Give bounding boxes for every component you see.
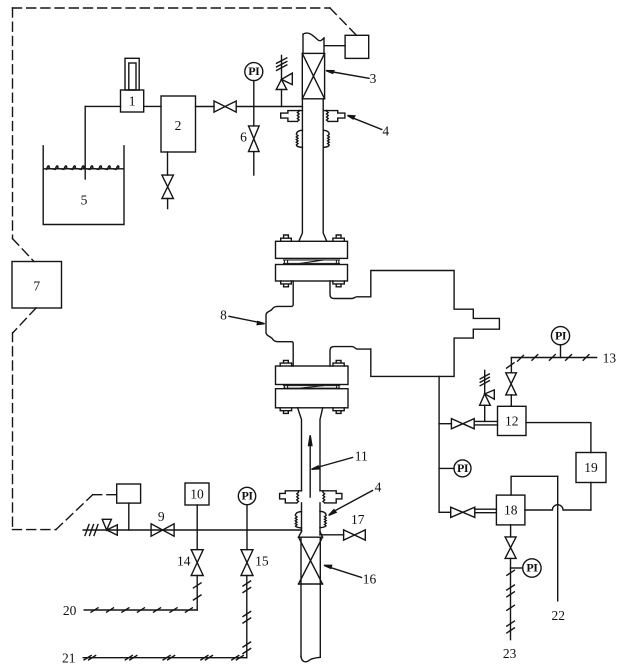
PI gauge on line 13 stem [560, 345, 562, 358]
dashed enclosure border left [12, 8, 14, 239]
atmospheric vent valve left [102, 519, 117, 535]
riser line to 21 [243, 576, 251, 658]
svg-text:8: 8 [220, 307, 227, 322]
valve 6 [249, 126, 260, 152]
box 7 [12, 262, 62, 309]
valve 15 stem [246, 530, 248, 550]
fitting 4 lower-right [320, 491, 342, 503]
svg-text:10: 10 [190, 487, 204, 502]
valve before box 12 [451, 419, 474, 429]
svg-text:13: 13 [603, 350, 617, 365]
leader for 3 [326, 71, 369, 79]
valve 6 stem [253, 107, 255, 126]
svg-text:16: 16 [363, 572, 377, 587]
PI gauge top-left [245, 63, 263, 81]
dashed link border to box 7 [13, 239, 35, 262]
stem small control box [128, 503, 130, 530]
box 10 stem [196, 505, 198, 530]
line to valve 17 [320, 534, 344, 536]
dashed link box 7 to border [13, 308, 36, 333]
wire valve 3 to actuator [325, 45, 346, 47]
PI gauge bottom-left [238, 487, 255, 504]
leader for 4 upper [348, 116, 382, 130]
valve above box 12 [506, 373, 517, 395]
svg-text:12: 12 [505, 413, 519, 428]
relief valve near box 12 stem [484, 405, 486, 421]
small control box [117, 484, 141, 503]
vent hatches left end [85, 525, 98, 536]
bottom flange gasket [284, 386, 340, 389]
wire box2 to valve [196, 106, 215, 108]
PI gauge top-left stem [253, 81, 255, 107]
column stub above valve 3 [303, 33, 324, 53]
top flange gasket [284, 260, 340, 263]
svg-text:9: 9 [158, 509, 165, 524]
dashed border bottom stub [13, 529, 56, 531]
svg-text:21: 21 [62, 651, 76, 666]
valve 15 [241, 550, 253, 576]
line below valve 6 [253, 152, 255, 175]
svg-text:15: 15 [255, 554, 269, 569]
PI gauge mid stem [439, 467, 454, 469]
wire box 12 to box 19 [526, 423, 591, 453]
svg-text:17: 17 [351, 512, 365, 527]
line 21 [83, 656, 247, 660]
box 19 [576, 453, 606, 483]
svg-text:1: 1 [129, 94, 136, 109]
bottom flange lower bolts [280, 408, 344, 414]
dashed diagonal to actuator [330, 8, 357, 35]
svg-text:22: 22 [551, 608, 565, 623]
svg-text:20: 20 [63, 603, 77, 618]
svg-text:5: 5 [81, 193, 88, 208]
PI gauge mid [454, 460, 471, 477]
relief valve near valve 3 [276, 55, 292, 89]
valve 3 [302, 53, 324, 98]
box 2 [161, 96, 196, 152]
fitting 4 upper-right [323, 110, 345, 121]
lower tubing walls 2 [302, 503, 321, 535]
wire to valve before 18 [439, 511, 451, 513]
capillary pair to box 12 [474, 421, 497, 425]
valve 17 [344, 530, 366, 540]
outlet pipe below valve 16 [301, 584, 320, 662]
svg-text:PI: PI [248, 64, 260, 78]
svg-text:11: 11 [355, 448, 368, 463]
valve 16 [299, 532, 323, 585]
svg-text:19: 19 [584, 460, 598, 475]
blowdown line 23 [507, 558, 515, 639]
svg-text:PI: PI [242, 489, 254, 503]
valve below box 18 [505, 537, 516, 559]
dashed link to small control box [93, 494, 117, 496]
upper casing walls [299, 99, 327, 241]
wire box1 to box2 [144, 105, 161, 107]
spool body 8 left profile [266, 281, 293, 366]
wire box 19 to box 18 with hop [525, 483, 591, 511]
riser line to 20 [193, 576, 201, 611]
dashed enclosure border top [13, 8, 357, 530]
svg-text:18: 18 [504, 502, 518, 517]
packing gland upper-right [323, 130, 329, 147]
line below drain valve [167, 199, 169, 209]
bottom flange lower plate [276, 389, 349, 408]
valve 14 stem [196, 530, 198, 550]
valve 9 [151, 524, 174, 536]
leader for 8 [229, 316, 265, 324]
svg-text:PI: PI [555, 328, 567, 342]
dashed border left lower [12, 333, 14, 530]
svg-text:14: 14 [177, 554, 191, 569]
sight tube on box 1 [125, 58, 139, 90]
supply line from block [438, 376, 440, 512]
actuator box [345, 35, 369, 58]
svg-text:7: 7 [33, 279, 40, 294]
tank 5 [43, 146, 124, 225]
leader for 4 lower [329, 491, 373, 516]
valve before box 18 [451, 507, 475, 517]
valve below 18 stem [510, 525, 512, 537]
bottom flange upper bolts [280, 360, 344, 366]
flow arrow 11 [309, 435, 312, 497]
valve 14 [191, 550, 203, 576]
bottom flange upper plate [276, 366, 349, 385]
relief valve near valve 3: stem [281, 90, 283, 107]
PI gauge on line 23 [523, 559, 541, 577]
svg-text:PI: PI [526, 561, 538, 575]
top flange upper plate [276, 241, 348, 258]
PI gauge on line 13 [551, 327, 569, 345]
drain valve below box 2 [162, 175, 174, 198]
line 20 [84, 608, 197, 612]
PI gauge on line 23 stem [511, 567, 523, 569]
top flange lower plate [276, 265, 348, 282]
svg-text:3: 3 [370, 71, 377, 86]
sampling line 13 [511, 355, 596, 362]
wire box1 left [85, 105, 120, 107]
spool body 8 right wall lower [330, 347, 371, 366]
packing gland lower-right [320, 511, 326, 527]
wire box 18 top to line 22 [511, 476, 558, 495]
fitting 4 lower-left [280, 491, 302, 503]
dip tube into tank 5 [84, 106, 86, 179]
svg-text:2: 2 [175, 118, 182, 133]
valve above box 12: stem [510, 395, 512, 406]
relief valve near box 12 [480, 370, 495, 405]
wire valve to column [236, 106, 302, 108]
line 22 [557, 476, 559, 601]
box 18 [496, 495, 525, 525]
box 1 [121, 58, 144, 112]
svg-text:PI: PI [457, 461, 469, 475]
drain stem below box 2 [167, 152, 169, 175]
packing gland lower-left [295, 512, 301, 528]
box 10 [185, 483, 209, 505]
top flange lower bolts [281, 281, 345, 287]
capillary pair to box 18 [475, 509, 497, 513]
spool body 8 right wall upper [330, 281, 371, 299]
svg-text:6: 6 [240, 130, 247, 145]
box 12 [498, 406, 527, 435]
leader for 11 [312, 458, 353, 470]
lower tubing walls [298, 408, 323, 491]
dashed diagonal to control box [56, 495, 93, 530]
svg-text:4: 4 [382, 124, 389, 139]
water level in tank 5 [44, 166, 123, 170]
fitting 4 upper-left [281, 110, 303, 121]
svg-text:4: 4 [375, 480, 382, 495]
wire to valve before 12 [439, 423, 451, 425]
valve between 2 and column [214, 101, 236, 112]
PI bottom-left stem [246, 505, 248, 530]
riser to line 13 with tick [507, 358, 514, 373]
top flange upper bolts [281, 235, 345, 241]
leader for 16 [324, 565, 362, 577]
left manifold line [83, 529, 301, 531]
test block body [371, 271, 500, 377]
packing gland upper-left [296, 130, 302, 147]
svg-text:23: 23 [503, 646, 517, 661]
